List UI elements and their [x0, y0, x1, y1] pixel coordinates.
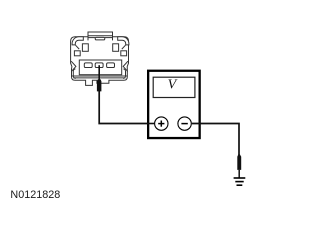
wire from probe P1 to voltmeter positive lead [99, 91, 154, 124]
probe tip lead to ground [238, 170, 240, 178]
voltmeter U1 case [148, 71, 200, 138]
connector C1 shell outline [71, 37, 129, 86]
pin 3 [107, 63, 115, 68]
pin 1 [84, 63, 92, 68]
wire stub inside case to positive terminal [147, 123, 155, 125]
left ear notch diagonal [76, 45, 80, 49]
positive terminal [155, 117, 168, 130]
left ear small block [74, 51, 80, 56]
svg-text:N0121828: N0121828 [10, 189, 60, 201]
flange line lower [73, 77, 125, 79]
wire from negative terminal to ground probe [192, 124, 239, 156]
probe lead into pin 2 [98, 65, 100, 80]
base inner wall left [73, 69, 75, 79]
right wing chevron [123, 61, 128, 71]
test probe P2 (ground lead) [237, 154, 241, 170]
left ear hook [72, 37, 83, 45]
right ear notch diagonal [122, 45, 126, 49]
negative terminal [178, 117, 191, 130]
flange line upper [72, 75, 128, 77]
right ear small block [121, 51, 127, 56]
connector latch tab [88, 32, 113, 40]
latch slot [95, 37, 105, 40]
ground symbol [234, 178, 246, 185]
test probe P1 (at connector) [97, 79, 102, 91]
left ear block [82, 44, 88, 52]
left wing chevron [71, 61, 76, 71]
base inner wall right [123, 69, 125, 79]
right ear block [113, 44, 119, 52]
voltmeter display window [153, 77, 195, 97]
pin 2 [95, 63, 103, 68]
pin cavity strip [79, 60, 121, 75]
right ear hook [118, 37, 129, 45]
svg-text:V: V [168, 78, 178, 93]
